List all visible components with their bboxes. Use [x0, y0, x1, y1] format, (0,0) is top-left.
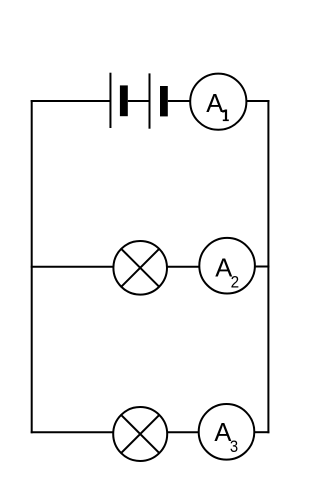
svg-text:A: A	[214, 419, 231, 447]
ammeter A1 subscript 1	[222, 110, 228, 122]
lamp L1 cross	[121, 249, 159, 287]
wire top-left to battery	[31, 100, 111, 102]
svg-text:3: 3	[230, 438, 239, 456]
battery B1 plate long 1	[109, 73, 111, 128]
svg-text:A: A	[206, 90, 223, 118]
wire A3 to bottom-right corner	[254, 431, 269, 433]
battery B1 plate short 1	[120, 85, 128, 116]
lamp L2 circle	[113, 407, 167, 461]
wire right rail	[267, 100, 269, 433]
wire mid-left to lamp L1	[31, 266, 114, 268]
wire L2 to ammeter A3	[167, 431, 199, 433]
wire L1 to ammeter A2	[167, 266, 200, 268]
battery B1 plate short 2	[160, 86, 168, 116]
wire A1 to top-right corner	[246, 100, 269, 102]
ammeter A3 circle	[199, 404, 255, 460]
svg-text:2: 2	[231, 273, 240, 292]
lamp L1 circle	[113, 241, 167, 295]
ammeter A2 circle	[199, 238, 255, 294]
wire battery to ammeter A1	[168, 100, 190, 102]
wire bottom-left to lamp L2	[31, 431, 113, 433]
battery B1 plate long 2	[149, 73, 151, 128]
wire left rail	[31, 100, 33, 433]
ammeter A1 circle	[190, 74, 246, 130]
lamp L2 cross	[121, 415, 159, 453]
wire A2 to right rail	[255, 266, 270, 268]
wire between battery cells	[128, 100, 150, 102]
